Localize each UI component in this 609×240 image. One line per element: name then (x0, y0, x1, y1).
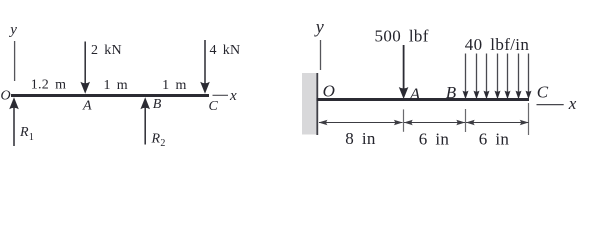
svg-text:40 lbf/in: 40 lbf/in (465, 35, 530, 54)
svg-text:C: C (209, 99, 219, 114)
svg-text:1 m: 1 m (162, 78, 186, 93)
svg-text:B: B (153, 97, 162, 112)
wall face line (316, 73, 318, 135)
y-axis line (left) (14, 41, 16, 81)
force arrow 2 kN at A (80, 42, 90, 94)
svg-text:A: A (82, 99, 92, 114)
y-axis line (right) (320, 40, 322, 70)
svg-text:1 m: 1 m (103, 78, 127, 93)
svg-text:O: O (1, 89, 11, 104)
svg-text:8 in: 8 in (345, 129, 376, 148)
svg-text:O: O (323, 82, 336, 101)
extension tick at C (528, 103, 530, 135)
svg-text:B: B (446, 83, 457, 102)
extension tick at B (465, 109, 467, 132)
svg-text:6 in: 6 in (479, 130, 510, 149)
force arrow 500 lbf at A (399, 45, 409, 99)
wall (fixed support) (302, 73, 317, 135)
distributed arrow 4 (495, 54, 501, 100)
force arrow 4 kN at C (200, 40, 210, 94)
svg-text:6 in: 6 in (419, 130, 450, 149)
svg-text:x: x (568, 94, 577, 113)
distributed arrow 7 (526, 54, 532, 100)
svg-text:2 kN: 2 kN (91, 43, 122, 58)
distributed load 40 lbf/in arrows B-C (463, 54, 532, 100)
svg-text:500 lbf: 500 lbf (375, 27, 429, 46)
reaction arrow R2 at B (140, 97, 150, 144)
dimension line 6 in (B-C) (466, 120, 529, 126)
svg-text:y: y (8, 22, 17, 38)
distributed arrow 2 (474, 54, 480, 100)
dimension line 8 in (O-A) (319, 120, 403, 126)
distributed arrow 6 (516, 54, 522, 100)
reaction arrow R1 at O (9, 97, 19, 146)
beam O-C (right) (317, 98, 530, 101)
extension tick at A (403, 109, 405, 131)
x-axis line (left) (213, 94, 229, 96)
x-axis line (right) (537, 104, 564, 106)
distributed arrow 5 (505, 54, 511, 100)
svg-text:A: A (409, 85, 421, 104)
svg-text:C: C (537, 83, 549, 102)
svg-text:1.2 m: 1.2 m (31, 78, 66, 93)
svg-text:y: y (314, 17, 324, 37)
distributed arrow 1 (463, 54, 469, 100)
svg-text:4 kN: 4 kN (210, 43, 241, 58)
beam O-C (left) (11, 94, 209, 97)
dimension line 6 in (A-B) (404, 120, 465, 126)
distributed arrow 3 (484, 54, 490, 100)
svg-text:x: x (229, 88, 237, 104)
